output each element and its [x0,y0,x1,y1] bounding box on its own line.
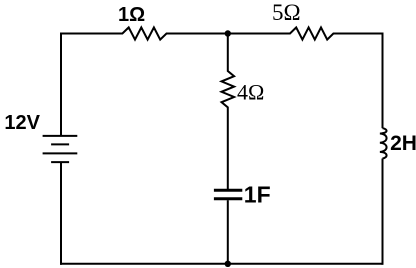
svg-text:2H: 2H [390,132,416,155]
svg-text:4Ω: 4Ω [237,79,264,104]
svg-text:5Ω: 5Ω [272,0,301,25]
svg-text:1Ω: 1Ω [118,4,145,26]
svg-text:12V: 12V [4,112,40,134]
svg-text:1F: 1F [244,182,271,208]
